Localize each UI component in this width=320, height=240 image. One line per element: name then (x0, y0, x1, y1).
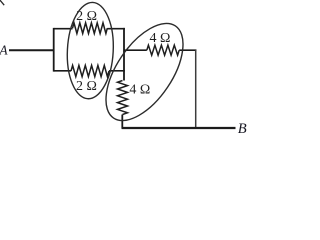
wire: right vertical down to bottom rail (195, 49, 197, 128)
wire: bottom branch left lead (54, 70, 71, 72)
svg-text:4 Ω: 4 Ω (129, 83, 150, 98)
wire: R4 bottom lead (121, 115, 123, 129)
svg-text:A: A (0, 43, 9, 58)
resistor R3 (horizontal 4 ohm) (147, 45, 179, 55)
svg-text:B: B (238, 121, 247, 137)
svg-text:2 Ω: 2 Ω (76, 79, 97, 94)
resistor R2 (bottom 2 ohm) (71, 65, 109, 76)
ellipse grouping the two 4-ohm resistors (91, 11, 199, 134)
wire: top branch right lead (107, 28, 125, 30)
svg-text:4 Ω: 4 Ω (150, 31, 171, 46)
resistor R1 (top 2 ohm) (73, 23, 108, 34)
wire: top branch left lead (54, 28, 73, 30)
ellipse grouping the two 2-ohm resistors (65, 1, 116, 100)
wire: middle branch lead to R3 (124, 49, 147, 51)
wire: bottom rail to B (122, 127, 236, 129)
wire: middle junction vertical (123, 28, 125, 81)
wire: left junction vertical (53, 28, 55, 72)
stray corner line (crop artifact) (0, 0, 4, 5)
wire from A to left junction (9, 49, 55, 51)
wire: R3 right lead (179, 49, 196, 51)
wire: bottom branch right lead (109, 70, 125, 72)
resistor R4 (vertical 4 ohm) (118, 81, 128, 115)
